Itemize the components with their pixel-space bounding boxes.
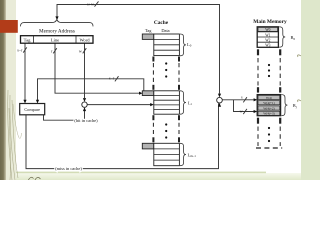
svg-text:Lm–1: Lm–1: [188, 152, 197, 158]
svg-text:W4j: W4j: [266, 96, 272, 100]
svg-text:Tag: Tag: [145, 28, 152, 33]
svg-text:s+w: s+w: [87, 1, 94, 6]
svg-text:w: w: [79, 48, 82, 53]
svg-text:s: s: [241, 95, 243, 100]
svg-text:Main Memory: Main Memory: [253, 19, 287, 25]
svg-text:W(4j+2): W(4j+2): [263, 106, 274, 110]
svg-text:W3: W3: [265, 44, 270, 48]
svg-text:r: r: [51, 48, 53, 53]
svg-text:s–r: s–r: [109, 75, 115, 80]
svg-text:(miss in cache): (miss in cache): [55, 166, 82, 171]
svg-text:s–r: s–r: [17, 48, 23, 53]
svg-text:W(4j+3): W(4j+3): [263, 112, 274, 116]
svg-text:Cache: Cache: [154, 20, 169, 26]
svg-text:Data: Data: [161, 28, 169, 33]
svg-text:L0: L0: [187, 42, 192, 48]
svg-text:Bj: Bj: [293, 103, 297, 109]
svg-text:Tag: Tag: [24, 38, 32, 43]
svg-text:Line: Line: [51, 38, 59, 43]
svg-text:(hit in cache): (hit in cache): [74, 118, 98, 123]
svg-text:W2: W2: [265, 39, 270, 43]
svg-text:W1: W1: [265, 33, 270, 37]
svg-text:w: w: [240, 108, 243, 113]
svg-text:B0: B0: [291, 35, 296, 41]
svg-text:Li: Li: [188, 100, 192, 106]
svg-text:W0: W0: [265, 28, 270, 32]
svg-text:W(4j+1): W(4j+1): [263, 101, 274, 105]
svg-text:Compare: Compare: [24, 107, 40, 112]
svg-text:Word: Word: [79, 38, 90, 43]
svg-text:Memory Address: Memory Address: [39, 29, 75, 35]
